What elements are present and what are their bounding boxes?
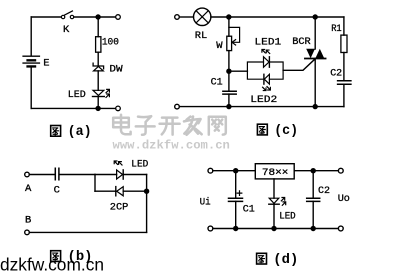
wire bottom branch left xyxy=(95,190,116,192)
svg-text:www.dzkfw.com.cn: www.dzkfw.com.cn xyxy=(113,138,230,152)
terminal A xyxy=(25,172,30,177)
svg-text:B: B xyxy=(25,214,31,226)
gate wire xyxy=(283,59,315,71)
wire resistor to zener xyxy=(97,52,99,66)
lamp RL xyxy=(194,8,211,25)
LED D1 xyxy=(93,89,110,97)
terminal B xyxy=(25,230,30,235)
svg-text:C1: C1 xyxy=(243,203,255,215)
node junction top xyxy=(95,14,100,19)
svg-text:C2: C2 xyxy=(330,67,342,79)
svg-text:LED: LED xyxy=(279,211,296,223)
figure label (a) xyxy=(51,125,92,140)
terminal bottom-right xyxy=(116,106,121,111)
terminal top-right xyxy=(116,15,121,20)
wire zener to LED xyxy=(97,71,99,90)
capacitor C2 xyxy=(307,171,320,229)
battery E xyxy=(23,17,39,108)
wire W to junction xyxy=(228,51,230,92)
parallel box left edge xyxy=(94,175,96,192)
terminal bottom-left xyxy=(175,104,180,109)
bottom wire xyxy=(31,107,115,109)
figure label (b) xyxy=(51,250,93,265)
node junction bottom triac xyxy=(313,104,318,109)
svg-text:(c): (c) xyxy=(274,124,298,139)
LED D1 xyxy=(269,179,286,229)
top wire right xyxy=(294,170,338,172)
zener diode DW xyxy=(93,63,104,71)
node junction bottom C2 xyxy=(311,226,316,231)
wire switch to top-right terminal xyxy=(74,16,116,18)
top wire xyxy=(211,16,344,18)
LED2 xyxy=(263,74,271,90)
watermark characters "dian zi kai fa wang" xyxy=(113,115,226,135)
node junction right xyxy=(144,189,149,194)
wire R1 to C2 xyxy=(343,53,345,81)
figure label (d) xyxy=(257,253,299,268)
terminal top-right xyxy=(338,168,343,173)
wire to resistor xyxy=(97,17,99,37)
capacitor C1 xyxy=(223,91,236,94)
wire top to R1 xyxy=(343,17,345,35)
resistor R1 xyxy=(341,35,347,52)
LED1 xyxy=(262,50,270,68)
svg-text:LED1: LED1 xyxy=(255,37,282,49)
svg-text:C: C xyxy=(54,185,60,197)
led box outline xyxy=(247,62,283,79)
wire bottom branch right xyxy=(123,190,146,192)
terminal bottom-left xyxy=(208,226,213,231)
svg-text:78××: 78×× xyxy=(262,167,289,179)
capacitor C1 electrolytic xyxy=(229,171,243,229)
svg-text:Uo: Uo xyxy=(338,193,350,205)
svg-text:(d): (d) xyxy=(273,253,298,268)
wire capacitor to box xyxy=(60,174,95,176)
top wire left xyxy=(213,170,256,172)
svg-text:LED: LED xyxy=(68,89,86,101)
wire C1 to bottom xyxy=(228,94,230,107)
bottom wire xyxy=(29,231,146,233)
svg-text:C1: C1 xyxy=(211,77,223,89)
svg-text:Ui: Ui xyxy=(200,196,211,208)
svg-text:2CP: 2CP xyxy=(110,201,129,213)
svg-text:LED: LED xyxy=(131,158,148,170)
regulator U1 78xx xyxy=(255,164,294,179)
right edge wire down xyxy=(146,175,148,233)
svg-text:LED2: LED2 xyxy=(250,94,277,106)
svg-text:100: 100 xyxy=(102,37,119,49)
svg-text:RL: RL xyxy=(195,30,208,42)
node junction C2 top xyxy=(311,168,316,173)
bottom wire xyxy=(179,106,344,108)
wire terminal to lamp xyxy=(179,16,193,18)
svg-text:DW: DW xyxy=(109,64,123,76)
terminal top-left xyxy=(208,168,213,173)
node junction left mid xyxy=(226,69,231,74)
wire top-left from battery to switch xyxy=(31,16,61,18)
switch K xyxy=(61,11,73,19)
wire junction to led box xyxy=(229,70,248,72)
node junction top W xyxy=(226,14,231,19)
svg-text:C2: C2 xyxy=(318,185,330,197)
node junction bottom xyxy=(95,106,100,111)
node junction top triac xyxy=(313,14,318,19)
svg-text:K: K xyxy=(63,24,70,36)
potentiometer W xyxy=(227,27,240,50)
node junction C1 top xyxy=(233,168,238,173)
svg-text:A: A xyxy=(25,183,32,195)
svg-text:dzkfw.com.cn: dzkfw.com.cn xyxy=(0,254,104,272)
LED D1 xyxy=(114,161,123,179)
svg-text:(a): (a) xyxy=(68,125,92,140)
svg-text:R1: R1 xyxy=(331,23,342,35)
terminal top-left xyxy=(175,15,180,20)
terminal bottom-right xyxy=(338,226,343,231)
node junction bottom LED xyxy=(271,226,276,231)
wire down to potentiometer xyxy=(228,17,230,36)
wire A to capacitor xyxy=(29,174,54,176)
wire top branch left xyxy=(95,174,117,176)
node junction bottom left xyxy=(226,104,231,109)
wire top branch right xyxy=(123,174,146,176)
diode 2CP xyxy=(116,187,123,196)
wire C2 to bottom xyxy=(343,84,345,106)
svg-text:E: E xyxy=(43,58,49,70)
figure label (c) xyxy=(257,124,298,139)
resistor R 100 xyxy=(96,37,101,53)
svg-text:W: W xyxy=(216,40,223,52)
svg-text:BCR: BCR xyxy=(292,36,311,48)
triac BCR xyxy=(305,17,326,107)
capacitor C xyxy=(55,168,59,180)
wire LED to bottom xyxy=(97,97,99,109)
bottom wire xyxy=(213,228,339,230)
node junction bottom C1 xyxy=(233,226,238,231)
capacitor C2 xyxy=(338,81,351,85)
